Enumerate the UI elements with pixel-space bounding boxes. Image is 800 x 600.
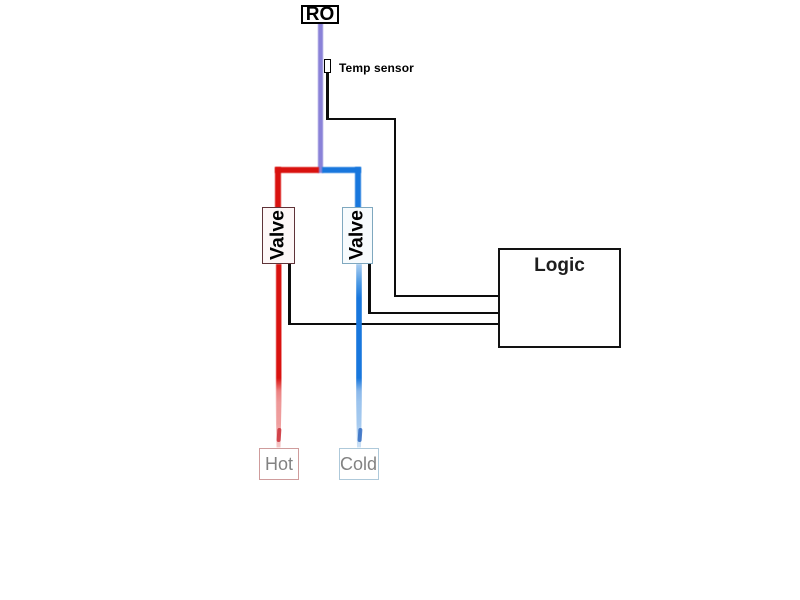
pipe: cold supply horizontal (blue) — [322, 167, 361, 173]
pipe: RO mixed output (purple) — [318, 23, 323, 173]
wire: temp sensor vertical drop to logic level — [394, 118, 397, 297]
pipe: cold supply below valve fading to source (blue) — [356, 264, 362, 448]
temp sensor body — [324, 59, 331, 73]
valve V1 (hot side) — [262, 207, 295, 264]
wire: temp sensor horizontal run 1 — [326, 118, 396, 121]
wire: hot valve control drop — [288, 264, 291, 325]
pipe: hot supply horizontal (red) — [275, 167, 319, 173]
pipe: hot end squiggle artifact — [276, 428, 280, 442]
Hot source box — [259, 448, 299, 480]
label: Temp sensor — [339, 61, 414, 75]
wire: cold valve horizontal into Logic — [368, 312, 499, 315]
pipe: cold end squiggle artifact — [357, 428, 361, 442]
Cold source box — [339, 448, 379, 480]
RO box — [301, 5, 339, 24]
Logic box — [498, 248, 621, 348]
wire: cold valve control drop — [368, 264, 371, 314]
pipe: hot supply vertical above valve (red) — [275, 167, 281, 208]
pipe: hot supply below valve fading to source (red) — [276, 264, 282, 448]
wire: hot valve horizontal into Logic — [288, 323, 499, 326]
wire: temp sensor horizontal into Logic — [394, 295, 499, 298]
valve V2 (cold side) — [342, 207, 374, 264]
wire: temp sensor drop (vertical from sensor) — [326, 73, 329, 119]
pipe: cold supply vertical above valve (blue) — [355, 167, 361, 208]
